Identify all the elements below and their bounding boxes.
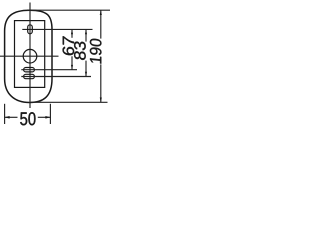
arrow up 190 bbox=[100, 10, 102, 15]
label 83 bbox=[74, 41, 86, 60]
bottom extension line E4 bbox=[31, 101, 108, 103]
knockout slot 1 centerline / extension line E2 bbox=[21, 69, 77, 71]
arrow up 67 bbox=[71, 29, 73, 34]
mounting slot (top vertical obround) bbox=[28, 25, 33, 34]
dimension line 83 bbox=[85, 29, 87, 41]
arrow up 83 bbox=[85, 29, 87, 34]
horizontal centerline through circle bbox=[0, 55, 59, 57]
label 67 bbox=[63, 36, 75, 55]
knockout slot 2 (horizontal obround) bbox=[24, 74, 35, 78]
50-dim left extension tick bbox=[4, 104, 6, 124]
vertical centerline bbox=[29, 3, 31, 109]
inner rectangle (plate opening) bbox=[15, 21, 45, 88]
50-dim right arrow bbox=[38, 116, 51, 118]
arrow down 83 bbox=[85, 72, 87, 77]
knockout slot 2 centerline / extension line E3 bbox=[21, 76, 91, 78]
slot horizontal centerline / extension line E1 bbox=[22, 28, 92, 30]
outer body outline (oblong canopy) bbox=[5, 10, 52, 102]
50-dim left arrow bbox=[5, 116, 18, 118]
knockout slot 1 (horizontal obround) bbox=[24, 68, 35, 72]
dimension line 67 bbox=[71, 29, 73, 37]
label 50 bbox=[20, 112, 35, 125]
top extension line E5 bbox=[27, 9, 110, 11]
50-dim right extension tick bbox=[49, 104, 51, 124]
dimension line 190 bbox=[100, 10, 102, 38]
label 190 bbox=[90, 38, 102, 63]
arrow down 190 bbox=[100, 98, 102, 103]
center hole (circle) bbox=[23, 49, 37, 63]
arrow down 67 bbox=[71, 65, 73, 70]
